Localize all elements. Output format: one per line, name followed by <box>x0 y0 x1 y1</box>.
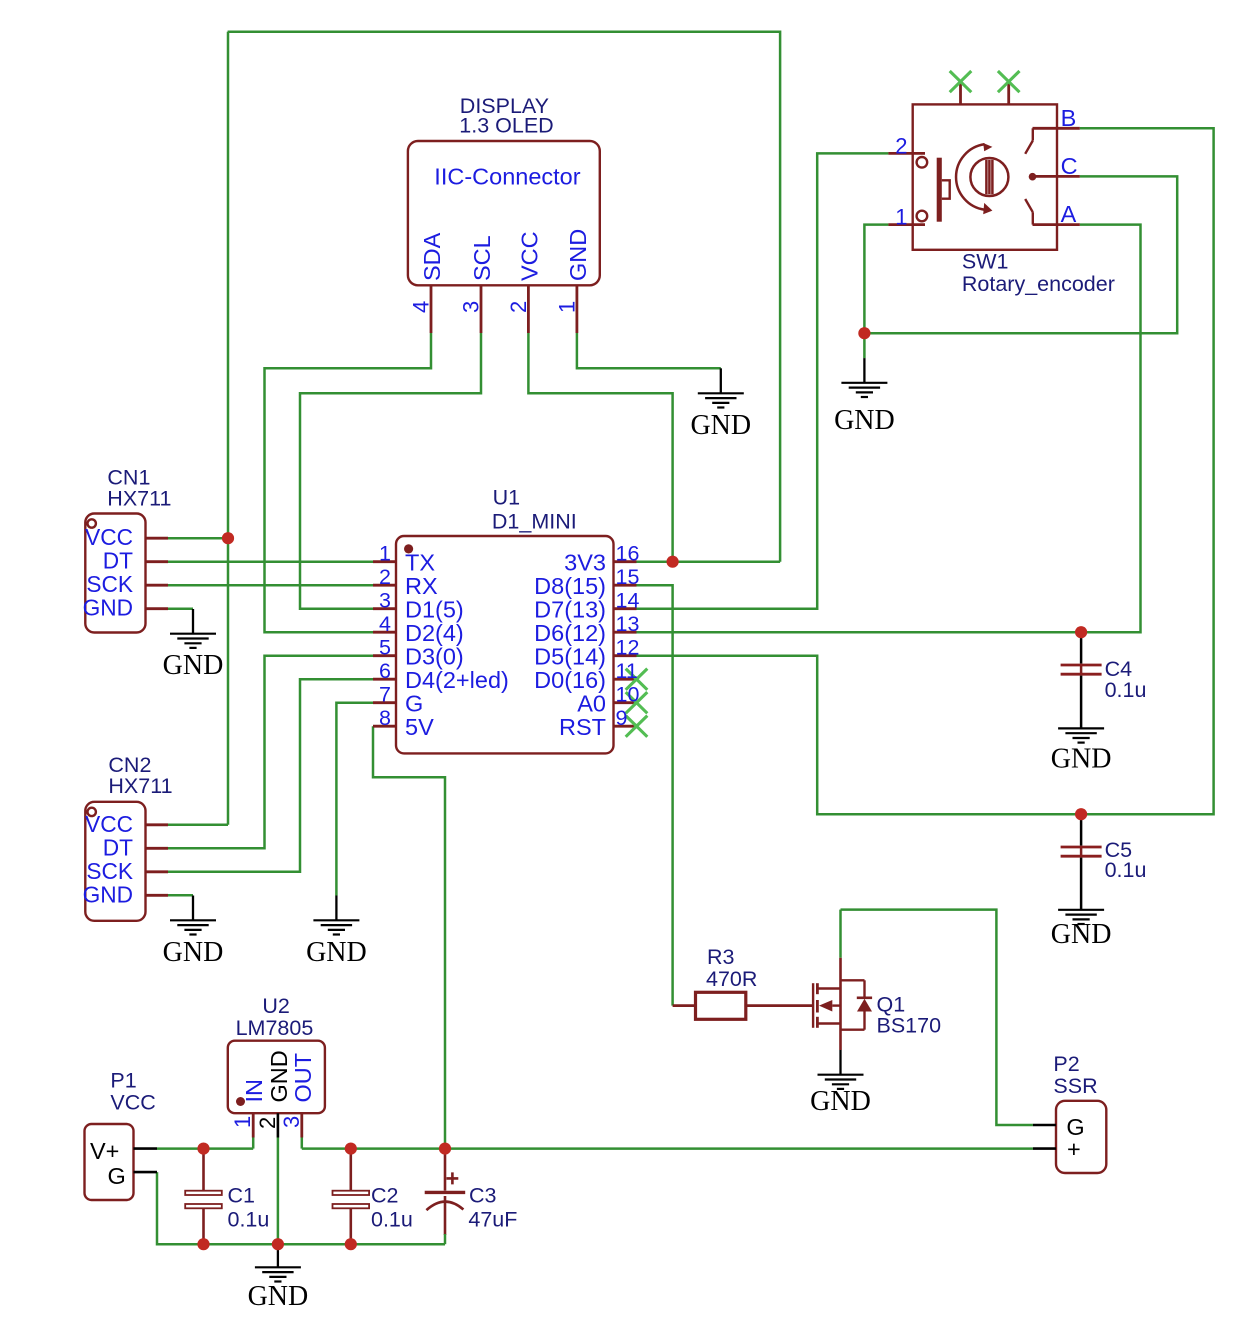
svg-text:4: 4 <box>409 301 434 313</box>
svg-text:IN: IN <box>241 1079 267 1103</box>
svg-text:B: B <box>1061 105 1077 131</box>
svg-text:RX: RX <box>405 573 438 599</box>
svg-text:GND: GND <box>163 650 224 681</box>
svg-text:GND: GND <box>834 405 895 436</box>
svg-text:47uF: 47uF <box>468 1208 517 1232</box>
svg-text:2: 2 <box>255 1117 280 1129</box>
svg-text:14: 14 <box>616 589 640 613</box>
svg-text:13: 13 <box>616 612 640 636</box>
svg-text:D5(14): D5(14) <box>534 643 606 669</box>
svg-text:IIC-Connector: IIC-Connector <box>434 163 580 189</box>
svg-text:HX711: HX711 <box>107 486 171 510</box>
svg-text:C3: C3 <box>469 1183 497 1207</box>
svg-text:DT: DT <box>103 834 133 860</box>
svg-text:VCC: VCC <box>110 1091 155 1115</box>
svg-text:2: 2 <box>506 301 531 313</box>
svg-text:VCC: VCC <box>85 811 133 837</box>
svg-text:0.1u: 0.1u <box>371 1208 413 1232</box>
svg-text:D8(15): D8(15) <box>534 573 606 599</box>
svg-text:A: A <box>1061 201 1077 227</box>
svg-text:D4(2+led): D4(2+led) <box>405 667 509 693</box>
svg-text:7: 7 <box>379 683 391 707</box>
svg-text:2: 2 <box>379 565 391 589</box>
svg-text:G: G <box>108 1163 126 1189</box>
svg-text:GND: GND <box>565 229 591 281</box>
svg-text:P1: P1 <box>110 1069 136 1093</box>
svg-text:15: 15 <box>616 565 640 589</box>
svg-text:0.1u: 0.1u <box>1105 678 1147 702</box>
svg-text:3: 3 <box>459 301 484 313</box>
svg-text:GND: GND <box>306 937 367 968</box>
svg-text:R3: R3 <box>707 945 735 969</box>
svg-text:16: 16 <box>616 542 640 566</box>
svg-text:3: 3 <box>379 589 391 613</box>
svg-text:12: 12 <box>616 636 640 660</box>
svg-text:6: 6 <box>379 659 391 683</box>
svg-text:GND: GND <box>83 595 133 621</box>
svg-text:8: 8 <box>379 706 391 730</box>
svg-text:+: + <box>1067 1136 1081 1162</box>
svg-text:11: 11 <box>616 659 638 683</box>
svg-text:SSR: SSR <box>1053 1074 1097 1098</box>
svg-text:RST: RST <box>559 714 606 740</box>
svg-text:1.3 OLED: 1.3 OLED <box>459 114 553 138</box>
svg-text:0.1u: 0.1u <box>1105 858 1147 882</box>
svg-text:DT: DT <box>103 548 133 574</box>
svg-text:1: 1 <box>379 542 391 566</box>
svg-text:GND: GND <box>163 937 224 968</box>
svg-text:10: 10 <box>616 683 640 707</box>
svg-text:GND: GND <box>248 1281 309 1312</box>
svg-text:3: 3 <box>279 1116 304 1128</box>
svg-text:SW1: SW1 <box>962 250 1009 274</box>
svg-text:5V: 5V <box>405 714 434 740</box>
svg-text:C1: C1 <box>228 1183 255 1207</box>
svg-text:3V3: 3V3 <box>564 549 606 575</box>
svg-text:GND: GND <box>690 410 751 441</box>
svg-text:C2: C2 <box>371 1183 398 1207</box>
svg-text:D0(16): D0(16) <box>534 667 606 693</box>
svg-text:BS170: BS170 <box>877 1014 942 1038</box>
svg-text:GND: GND <box>810 1086 871 1117</box>
svg-text:U2: U2 <box>262 994 289 1018</box>
svg-text:SCK: SCK <box>86 571 133 597</box>
svg-text:VCC: VCC <box>85 524 133 550</box>
svg-text:5: 5 <box>379 636 391 660</box>
svg-text:0.1u: 0.1u <box>228 1208 270 1232</box>
svg-text:SCK: SCK <box>86 858 133 884</box>
svg-text:V+: V+ <box>90 1138 119 1164</box>
svg-text:1: 1 <box>895 205 907 230</box>
svg-text:D7(13): D7(13) <box>534 596 606 622</box>
svg-text:OUT: OUT <box>290 1053 316 1103</box>
svg-text:Rotary_encoder: Rotary_encoder <box>962 272 1115 296</box>
svg-text:GND: GND <box>1051 744 1112 775</box>
svg-text:C: C <box>1061 153 1078 179</box>
svg-text:9: 9 <box>616 706 628 730</box>
svg-text:2: 2 <box>895 133 907 158</box>
svg-text:P2: P2 <box>1053 1052 1079 1076</box>
svg-text:A0: A0 <box>577 690 606 716</box>
svg-text:U1: U1 <box>493 485 520 509</box>
svg-text:SDA: SDA <box>419 232 445 281</box>
svg-text:LM7805: LM7805 <box>236 1016 314 1040</box>
svg-text:HX711: HX711 <box>108 774 172 798</box>
svg-text:TX: TX <box>405 549 435 575</box>
svg-text:D6(12): D6(12) <box>534 620 606 646</box>
svg-text:470R: 470R <box>706 967 757 991</box>
svg-text:VCC: VCC <box>517 231 543 281</box>
svg-text:1: 1 <box>230 1116 255 1128</box>
svg-text:SCL: SCL <box>469 235 495 281</box>
svg-text:D1_MINI: D1_MINI <box>492 510 577 534</box>
svg-text:1: 1 <box>554 301 579 313</box>
svg-text:GND: GND <box>1051 919 1112 950</box>
svg-text:G: G <box>405 690 423 716</box>
svg-text:GND: GND <box>83 881 133 907</box>
svg-text:GND: GND <box>266 1050 292 1102</box>
svg-text:D2(4): D2(4) <box>405 620 464 646</box>
svg-text:D1(5): D1(5) <box>405 596 464 622</box>
svg-text:D3(0): D3(0) <box>405 643 464 669</box>
svg-text:4: 4 <box>379 612 391 636</box>
